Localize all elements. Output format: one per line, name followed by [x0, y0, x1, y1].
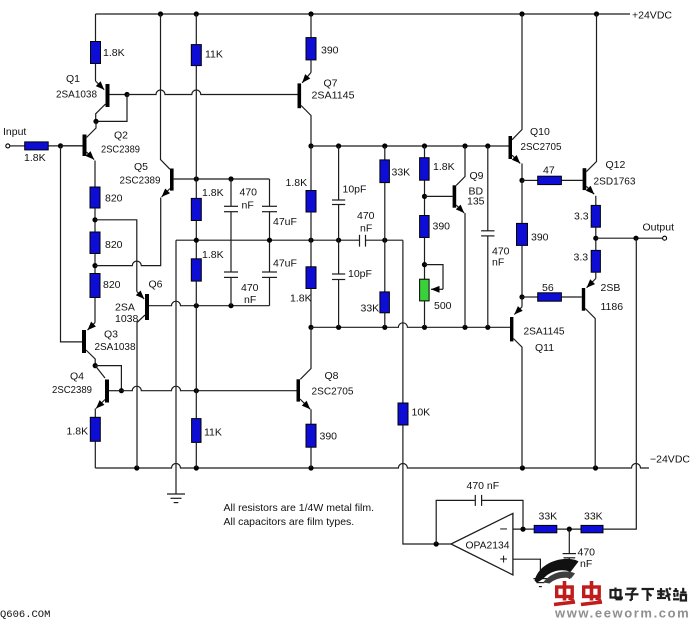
wire 820 node to Q6 emitter (hops over emitter bus)	[95, 220, 137, 292]
svg-text:390: 390	[531, 232, 549, 244]
svg-text:nF: nF	[242, 200, 254, 212]
wire between 33K pair	[557, 528, 581, 530]
ground	[167, 494, 185, 503]
svg-text:Q9: Q9	[470, 170, 484, 182]
svg-text:470: 470	[241, 282, 259, 294]
svg-text:11K: 11K	[205, 49, 223, 61]
wire mid bus to ground	[175, 240, 177, 494]
wire mid bus to 10K (feedback tap)	[402, 240, 404, 403]
svg-text:Q1: Q1	[66, 73, 80, 85]
svg-text:10pF: 10pF	[343, 184, 367, 196]
wire op-amp non-inverting input to ground	[513, 559, 541, 578]
wire upper bias bus to Q10 base	[311, 145, 509, 147]
wire base bus Q1 to Q7	[127, 90, 298, 95]
node Q5 base / tail column	[194, 176, 199, 181]
capacitor 10pF (lower)	[332, 268, 372, 327]
node Input terminal	[6, 144, 10, 148]
resistor 33K feedback 1	[534, 511, 557, 533]
svg-text:Q10: Q10	[530, 126, 550, 138]
wire rail to Q1 emitter resistor	[95, 14, 97, 42]
svg-text:33K: 33K	[392, 167, 411, 179]
node 820 junction 2	[92, 263, 97, 268]
wire between VAS resistors	[310, 212, 312, 267]
capacitor 470nF bias bypass	[481, 146, 510, 327]
transistor Q9 BD135	[453, 146, 485, 213]
svg-text:470: 470	[357, 210, 375, 222]
wire output	[596, 237, 663, 239]
node bottom rail junctions	[134, 465, 139, 470]
wire 820 chain	[94, 208, 96, 232]
wire 1.8K to Q9 base node	[424, 180, 426, 215]
transistor Q8 2SC2705	[297, 327, 354, 409]
wire 820 chain	[94, 254, 96, 274]
resistor 1.8K (VAS upper)	[306, 191, 316, 213]
svg-text:1186: 1186	[601, 301, 624, 313]
wire 33K up to output node	[603, 238, 636, 529]
svg-text:1.8K: 1.8K	[103, 47, 125, 59]
svg-text:2SA1145: 2SA1145	[524, 326, 565, 338]
transistor Q6 2SA1038	[115, 279, 163, 469]
wire Q2 emitter to 820 chain	[94, 161, 96, 188]
svg-text:47uF: 47uF	[273, 216, 297, 228]
svg-text:2SA: 2SA	[115, 302, 135, 314]
capacitor 10pF (upper)	[332, 146, 366, 205]
capacitor 470nF coupling (horizontal)	[357, 210, 375, 247]
svg-text:135: 135	[467, 196, 485, 208]
potentiometer 500 trimmer	[420, 265, 452, 312]
svg-text:10pF: 10pF	[348, 268, 372, 280]
svg-text:390: 390	[321, 45, 339, 57]
wire +24VDC top rail	[96, 13, 631, 15]
wire Q4 base bus to Q8 base	[121, 386, 296, 391]
svg-text:www.eeworm.com: www.eeworm.com	[554, 606, 690, 619]
wire 1.8K to lower bias bus	[310, 289, 312, 328]
svg-text:500: 500	[434, 300, 452, 312]
svg-text:2SC2389: 2SC2389	[52, 384, 92, 396]
svg-text:2SA1145: 2SA1145	[312, 90, 355, 102]
wire mid bus right of cap	[366, 239, 403, 241]
wire -24VDC bottom rail	[95, 464, 649, 469]
resistor 820 (top)	[90, 187, 100, 208]
wire resistor to Q1	[95, 64, 97, 82]
resistor 1.8K (filter lower)	[191, 259, 201, 281]
watermark logo "chong chong" glyphs	[554, 581, 575, 605]
wire 11K down through Q5 base node	[195, 66, 197, 199]
resistor 390 Q7 emitter	[306, 38, 316, 60]
node 33K junction	[567, 527, 572, 532]
transistor Q7 2SA1145	[298, 73, 355, 147]
wire Q7 collector to 1.8K	[310, 146, 312, 191]
wire trimmer to lower bus	[424, 301, 426, 327]
resistor 820 (middle)	[90, 232, 100, 254]
svg-text:Input: Input	[3, 126, 26, 138]
resistor 10K feedback	[398, 403, 430, 425]
svg-text:56: 56	[542, 282, 554, 294]
node Q8 collector junction	[308, 325, 313, 330]
svg-text:470: 470	[240, 187, 258, 199]
node Q5 base / 470nF column	[228, 176, 233, 181]
wire 56 to 2SB1186 base	[561, 296, 581, 298]
svg-text:1038: 1038	[115, 313, 139, 325]
wire Q12 emitter to 3.3	[595, 196, 597, 206]
capacitor 470nF (lower)	[224, 272, 259, 306]
svg-text:47: 47	[543, 165, 555, 177]
svg-text:Q606.COM: Q606.COM	[0, 609, 50, 619]
svg-text:3.3: 3.3	[574, 211, 589, 223]
resistor 1.8K Q1 emitter	[91, 42, 101, 64]
wire 33K column mid	[384, 183, 386, 292]
resistor 820 (bottom)	[90, 274, 100, 298]
svg-text:Q4: Q4	[70, 371, 84, 383]
resistor 11K (top)	[191, 45, 201, 66]
watermark swoosh	[535, 559, 579, 583]
node Q7 collector	[308, 143, 313, 148]
node Q11 emitter junction	[519, 294, 524, 299]
wire Q5 base bus to caps	[196, 178, 269, 180]
transistor Q5 2SC2389	[120, 161, 197, 197]
resistor 56 2SB1186 base	[522, 282, 561, 301]
wire 820 to Q3 emitter	[94, 298, 96, 323]
node op-amp output junction	[434, 541, 439, 546]
svg-text:820: 820	[103, 279, 121, 291]
svg-text:2SA1038: 2SA1038	[95, 341, 136, 353]
svg-text:−24VDC: −24VDC	[650, 454, 690, 466]
svg-text:33K: 33K	[361, 303, 380, 315]
node input junction	[58, 143, 63, 148]
svg-text:Q6: Q6	[149, 279, 163, 291]
wire between 1.8K pair	[195, 221, 197, 259]
svg-text:Q5: Q5	[134, 161, 148, 173]
svg-text:820: 820	[105, 193, 123, 205]
node output junction 2	[633, 236, 638, 241]
resistor 1.8K bias divider	[420, 146, 455, 180]
resistor 1.8K input series	[25, 142, 49, 150]
watermark site name glyphs	[611, 588, 622, 600]
svg-text:All resistors are 1/4W metal f: All resistors are 1/4W metal film.	[224, 502, 375, 514]
svg-text:Q11: Q11	[535, 342, 554, 354]
transistor Q12 2SD1763	[583, 14, 636, 194]
wire down to 11K bottom	[195, 281, 197, 419]
resistor 33K (lower)	[361, 292, 390, 327]
svg-text:3.3: 3.3	[574, 252, 589, 264]
wire rail down to Q5 collector	[161, 14, 171, 169]
wire 470nF column (crosses mid bus)	[230, 212, 232, 272]
capacitor 470nF op-amp feedback	[436, 480, 523, 544]
svg-text:2SC2705: 2SC2705	[312, 386, 354, 398]
wire 390 to Q7 emitter	[310, 60, 312, 73]
node Q1 base	[124, 92, 129, 97]
svg-text:Output: Output	[643, 222, 675, 234]
svg-text:1.8K: 1.8K	[67, 426, 89, 438]
node Q9 base junction	[422, 194, 427, 199]
svg-text:47uF: 47uF	[273, 258, 297, 270]
svg-text:2SC2389: 2SC2389	[120, 175, 161, 187]
wire 10K down to op-amp output	[403, 425, 451, 544]
resistor 3.3 lower output	[574, 250, 601, 272]
svg-text:390: 390	[433, 221, 451, 233]
node Q6 bus / 470nF column	[228, 303, 233, 308]
svg-text:470 nF: 470 nF	[467, 480, 500, 492]
resistor 3.3 upper output	[574, 205, 600, 227]
resistor 1.8K (VAS lower)	[306, 267, 316, 289]
resistor 33K (upper)	[380, 146, 410, 183]
wire 11K to -24V rail	[195, 442, 197, 468]
svg-text:nF: nF	[580, 558, 592, 570]
svg-text:820: 820	[105, 239, 123, 251]
wire 1.8K to -24V rail	[94, 441, 96, 468]
svg-text:11K: 11K	[204, 427, 222, 439]
node top rail junctions	[158, 11, 163, 16]
svg-text:All capacitors are film types.: All capacitors are film types.	[224, 516, 355, 528]
wire 10pF column mid	[338, 205, 340, 275]
svg-text:2SB: 2SB	[601, 282, 621, 294]
resistor 47 Q12 base	[522, 165, 561, 185]
svg-text:Q12: Q12	[606, 159, 626, 171]
wire Q8 emitter to 390	[310, 409, 312, 424]
svg-text:2SC2389: 2SC2389	[101, 144, 140, 156]
wire Q10 emitter node down to 390	[521, 180, 523, 223]
wire input to series resistor	[10, 145, 25, 147]
resistor 1.8K Q4 emitter	[90, 417, 100, 441]
node upper bias bus junctions	[336, 143, 341, 148]
wire Q10 emitter to 47 node	[521, 163, 523, 180]
node 820 junction 1	[92, 217, 97, 222]
svg-text:Q3: Q3	[104, 329, 118, 341]
transistor Q4 2SC2389	[52, 366, 121, 409]
svg-text:+24VDC: +24VDC	[632, 10, 672, 22]
resistor 390 bias divider	[420, 216, 451, 238]
wire left rail input node to Q3 base	[61, 146, 83, 342]
wire rail to 390	[310, 14, 312, 38]
svg-text:Q8: Q8	[325, 370, 339, 382]
node inverting input junction	[520, 527, 525, 532]
wire Q4 collector-base loop	[95, 366, 121, 391]
node Q1 collector / Q2 collector	[93, 119, 98, 124]
node mid bus junctions	[194, 238, 199, 243]
svg-text:1.8K: 1.8K	[202, 249, 224, 261]
transistor Q11 2SA1145	[510, 297, 565, 468]
wire Q5 emitter down and left to 820 node	[95, 198, 161, 266]
svg-text:1.8K: 1.8K	[286, 177, 308, 189]
svg-text:1.8K: 1.8K	[24, 152, 46, 164]
wire 3.3 to output node	[595, 227, 597, 250]
transistor Q1 2SA1038	[56, 73, 127, 119]
capacitor 47uF (upper)	[262, 179, 297, 240]
op-amp U1 OPA2134	[451, 513, 513, 575]
svg-text:33K: 33K	[584, 511, 603, 523]
transistor Q2 2SC2389	[61, 121, 141, 159]
wire 390 to -24V rail	[310, 447, 312, 468]
wire rail to 11K top	[195, 14, 197, 45]
capacitor 470nF (upper)	[224, 179, 257, 212]
capacitor 470nF to ground at 33K junction	[563, 529, 596, 579]
svg-text:nF: nF	[244, 294, 256, 306]
svg-text:Q2: Q2	[114, 130, 128, 142]
transistor Q10 2SC2705	[509, 14, 562, 163]
svg-text:Q7: Q7	[324, 78, 338, 90]
svg-text:2SA1038: 2SA1038	[56, 89, 97, 101]
transistor 2SB1186	[582, 272, 623, 468]
svg-text:−: −	[500, 521, 508, 537]
node lower bias bus junctions	[336, 325, 341, 330]
svg-text:2SD1763: 2SD1763	[594, 176, 636, 188]
node tail bus / 11K junction	[194, 388, 199, 393]
wire Q9 base	[425, 195, 453, 197]
svg-text:+: +	[500, 551, 508, 567]
resistor 390 bias	[517, 223, 549, 245]
wire resistor to Q2 base	[48, 145, 82, 147]
svg-text:1.8K: 1.8K	[290, 293, 312, 305]
wire mid bias bus	[176, 239, 359, 241]
wire 390 to 56 node	[521, 245, 523, 297]
wire 390 to trimmer	[424, 238, 426, 280]
node Q4 base loop	[119, 388, 124, 393]
wire 47 to Q12 base	[561, 179, 582, 181]
wire op-amp inverting input	[513, 528, 534, 530]
wire Q1 base loop down to collector node	[96, 95, 127, 122]
svg-text:390: 390	[320, 431, 338, 443]
wire Q4 emitter to 1.8K	[94, 409, 96, 418]
ground op-amp	[533, 579, 547, 587]
capacitor 47uF (lower)	[262, 240, 297, 306]
wire Q6 base bus	[149, 301, 270, 306]
resistor 11K (bottom)	[192, 419, 201, 443]
node Q10 emitter junction	[519, 178, 524, 183]
svg-text:1.8K: 1.8K	[433, 161, 455, 173]
svg-text:1.8K: 1.8K	[202, 187, 224, 199]
svg-text:10K: 10K	[412, 407, 431, 419]
transistor Q3 2SA1038	[82, 323, 136, 366]
svg-text:33K: 33K	[539, 511, 558, 523]
resistor 33K feedback 2	[581, 511, 603, 533]
wire lower bias bus to Q11 base	[311, 323, 510, 328]
resistor 390 Q8 emitter	[306, 424, 316, 447]
wire Q9 emitter to lower bus	[464, 213, 466, 327]
node Q6 bus / tail column	[194, 303, 199, 308]
node output junction 1	[593, 236, 598, 241]
svg-text:nF: nF	[492, 257, 504, 269]
svg-text:470: 470	[578, 547, 596, 559]
node trimmer wiper junction	[422, 262, 427, 267]
svg-text:nF: nF	[360, 223, 372, 235]
svg-text:2SC2705: 2SC2705	[521, 141, 562, 153]
resistor 1.8K (filter upper)	[191, 198, 201, 220]
node Output terminal	[663, 236, 667, 240]
node Q3/Q4 collector junction	[93, 363, 98, 368]
